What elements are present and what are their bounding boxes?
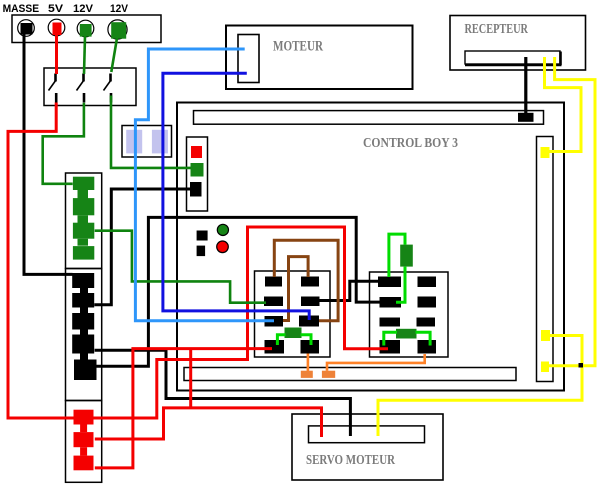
resistor R1 (green, vertical) bbox=[400, 245, 413, 267]
black chain pad 1 bbox=[72, 273, 94, 288]
wire orange relay K1 row4 right pad to strip pad bbox=[307, 354, 310, 372]
orange pad 2 on bottom strip bbox=[322, 371, 335, 378]
wire bright green K2 coil right to row4 right pad bbox=[416, 332, 431, 345]
right connector strip bbox=[537, 137, 554, 382]
yellow pad 3 on right strip bbox=[541, 362, 549, 373]
wire bright green K2 coil left to row4 left pad bbox=[384, 332, 397, 345]
K1 pad row3 right bbox=[299, 316, 319, 327]
wire bright green K1 coil right to row4 right pad bbox=[301, 335, 312, 345]
red chain pad 1 bbox=[74, 410, 94, 425]
terminal block box bbox=[12, 15, 161, 43]
black chain pad 2 bbox=[72, 293, 94, 308]
component box U1 bbox=[187, 137, 208, 211]
K1 pad row2 right bbox=[301, 297, 320, 307]
wire green strip pad3 to relay K1 row2 pad bbox=[95, 231, 266, 303]
svg-text:SERVO MOTEUR: SERVO MOTEUR bbox=[306, 452, 395, 467]
switch S2 blade bbox=[77, 80, 85, 91]
K2 pad row2 right bbox=[418, 297, 437, 308]
K1 coil (green) bbox=[285, 328, 302, 339]
terminal 12V circle bbox=[77, 20, 94, 37]
LED green bbox=[217, 224, 228, 235]
K2 pad row4 left bbox=[380, 340, 401, 354]
yellow pad 2 on right strip bbox=[541, 330, 550, 341]
wire brown relay K1 row1 left pad to row3 right pad (outer) bbox=[274, 240, 338, 320]
black chain pad 5 bbox=[74, 360, 97, 381]
terminal 12V pad (2) bbox=[111, 22, 126, 39]
terminal MASSE pad bbox=[21, 23, 33, 35]
switch box bbox=[44, 68, 136, 106]
wire dark blue motor to relay K1 row3 right pad bbox=[163, 73, 309, 320]
switch S3 blade bbox=[104, 80, 112, 91]
black chain link 4 bbox=[80, 354, 88, 360]
switch S3 lower contact bbox=[110, 93, 113, 103]
terminal 5V pad bbox=[53, 23, 62, 36]
indicator pad A bbox=[197, 231, 208, 241]
terminal MASSE circle bbox=[18, 20, 35, 37]
switch S2 upper contact bbox=[82, 74, 85, 82]
switch S3 upper contact bbox=[109, 74, 112, 82]
wire yellow receiver pin1 to right strip pad1 bbox=[545, 57, 582, 152]
green chain pad 1 bbox=[73, 177, 94, 190]
capacitor element 2 bbox=[152, 130, 168, 154]
U1 green pad bbox=[191, 163, 204, 177]
wire red strip pad3 to relay K1 row4 pad bbox=[95, 349, 272, 468]
K2 pad row3 left bbox=[380, 318, 401, 327]
black chain pad 4 bbox=[72, 335, 94, 354]
wire red strip pad2 to servo motor bbox=[95, 408, 322, 439]
K2 pad row4 right bbox=[418, 340, 437, 354]
K1 pad row1 right bbox=[301, 277, 319, 287]
SERVO MOTEUR connector strip bbox=[309, 426, 425, 443]
terminal 12V pad bbox=[80, 24, 92, 37]
red chain link 2 bbox=[80, 447, 87, 455]
wire bright green R1 top to K2 row1 left pad bbox=[389, 234, 405, 277]
wire black MASSE to left strip pad 1 bbox=[24, 35, 73, 275]
red chain pad 2 bbox=[74, 432, 94, 447]
switch S2 lower contact bbox=[83, 93, 86, 103]
wire green 12V terminal to switch 2 bbox=[84, 36, 85, 74]
green chain pad 3 bbox=[73, 223, 94, 239]
wire yellow right strip pad2 to servo motor bbox=[378, 336, 582, 437]
green chain pad 2 bbox=[73, 198, 94, 215]
wire red switch1 to red strip pad1 then around relays (red loop) bbox=[8, 103, 388, 419]
wire black relay K1 row2 right pad to relay K2 row1 left pad bbox=[319, 281, 379, 300]
RECEPTEUR connector strip bbox=[465, 51, 560, 64]
wire red junction branch to servo red line bbox=[189, 349, 192, 408]
junction dot yellow crossing bbox=[579, 363, 584, 368]
svg-text:CONTROL BOY 3: CONTROL BOY 3 bbox=[363, 135, 458, 150]
black chain link 1 bbox=[80, 288, 88, 293]
top connector strip bbox=[194, 111, 544, 125]
K1 pad row1 left bbox=[265, 277, 282, 287]
capacitor element 1 bbox=[126, 130, 142, 154]
orange pad 1 on bottom strip bbox=[301, 371, 313, 378]
wire black U1 pad to left strip pad2 bbox=[94, 189, 190, 305]
red chain link 1 bbox=[80, 425, 87, 433]
K2 pad row1 left bbox=[378, 277, 401, 288]
wire brown relay K1 row1 right pad to row3 left pad (inner) bbox=[283, 257, 308, 321]
red chain pad 3 bbox=[74, 456, 94, 471]
svg-text:12V: 12V bbox=[73, 3, 94, 15]
K1 pad row2 left bbox=[264, 297, 283, 307]
K2 coil (green) bbox=[396, 329, 417, 339]
K2 pad row2 left bbox=[380, 297, 402, 308]
relay K1 box bbox=[255, 271, 331, 357]
svg-text:12V: 12V bbox=[110, 3, 129, 15]
K1 pad row4 left bbox=[265, 340, 285, 354]
left connector strip: middle section box bbox=[66, 269, 102, 401]
left connector strip: bottom section box bbox=[66, 401, 102, 483]
wire bright green K1 coil left to row4 left pad bbox=[277, 335, 285, 345]
green chain pad 4 bbox=[73, 246, 94, 260]
bottom connector strip bbox=[184, 368, 516, 381]
switch S1 blade bbox=[49, 80, 57, 91]
K1 pad row3 left bbox=[265, 316, 284, 327]
wire green switch3 to U1 green pad bbox=[111, 96, 191, 168]
U1 black pad bbox=[190, 182, 202, 197]
svg-text:MOTEUR: MOTEUR bbox=[273, 39, 323, 55]
K1 pad row4 right bbox=[301, 340, 320, 354]
wire black left strip pad5 to relay K2 row2 pad bbox=[96, 217, 380, 366]
svg-text:5V: 5V bbox=[48, 3, 64, 15]
wire black receiver to control strip pad bbox=[524, 57, 527, 118]
K2 pad row3 right bbox=[417, 318, 436, 327]
U1 red pad bbox=[191, 146, 202, 158]
svg-text:MASSE: MASSE bbox=[3, 3, 40, 15]
black chain link 2 bbox=[80, 308, 88, 314]
wire black left strip pad4 to servo motor bbox=[95, 350, 351, 436]
switch S1 upper contact bbox=[54, 74, 57, 82]
CONTROL BOY 3 outer box bbox=[177, 103, 564, 391]
SERVO MOTEUR box bbox=[292, 414, 443, 480]
wire light blue motor to relay K1 row3 left pad bbox=[135, 49, 274, 321]
wire yellow receiver pin2 to right strip pad3 bbox=[549, 57, 595, 366]
terminal 5V circle bbox=[48, 19, 65, 36]
svg-text:RECEPTEUR: RECEPTEUR bbox=[465, 22, 529, 37]
wire green 12V terminal (2) to switch 3 bbox=[111, 38, 117, 72]
capacitor block box bbox=[122, 126, 172, 158]
wire green switch2 to green strip pad1 bbox=[43, 103, 84, 184]
pad on top strip (receiver) bbox=[518, 113, 534, 122]
green chain link 1 bbox=[78, 190, 89, 199]
black chain pad 3 bbox=[72, 313, 94, 330]
switch S1 lower contact bbox=[55, 93, 58, 103]
LED red bbox=[217, 241, 229, 253]
green chain link 2 bbox=[78, 215, 89, 223]
black chain link 3 bbox=[80, 330, 88, 335]
relay K2 box bbox=[370, 272, 449, 357]
K2 pad row1 right bbox=[418, 277, 437, 288]
indicator pad B bbox=[197, 246, 206, 257]
MOTEUR pin connector bbox=[238, 35, 259, 83]
wire bright green R1 bottom to K2 row2 left pad bbox=[396, 267, 405, 303]
MOTEUR box bbox=[226, 26, 413, 90]
left connector strip: green section box bbox=[66, 173, 102, 269]
yellow pad 1 on right strip bbox=[541, 147, 550, 158]
terminal 12V circle (2) bbox=[108, 20, 127, 39]
wire orange strip pad to relay K2 row4 right pad bbox=[327, 354, 425, 371]
wire red 5V terminal to switch 1 bbox=[55, 34, 58, 74]
green chain link 3 bbox=[78, 239, 89, 246]
RECEPTEUR box bbox=[450, 16, 586, 71]
